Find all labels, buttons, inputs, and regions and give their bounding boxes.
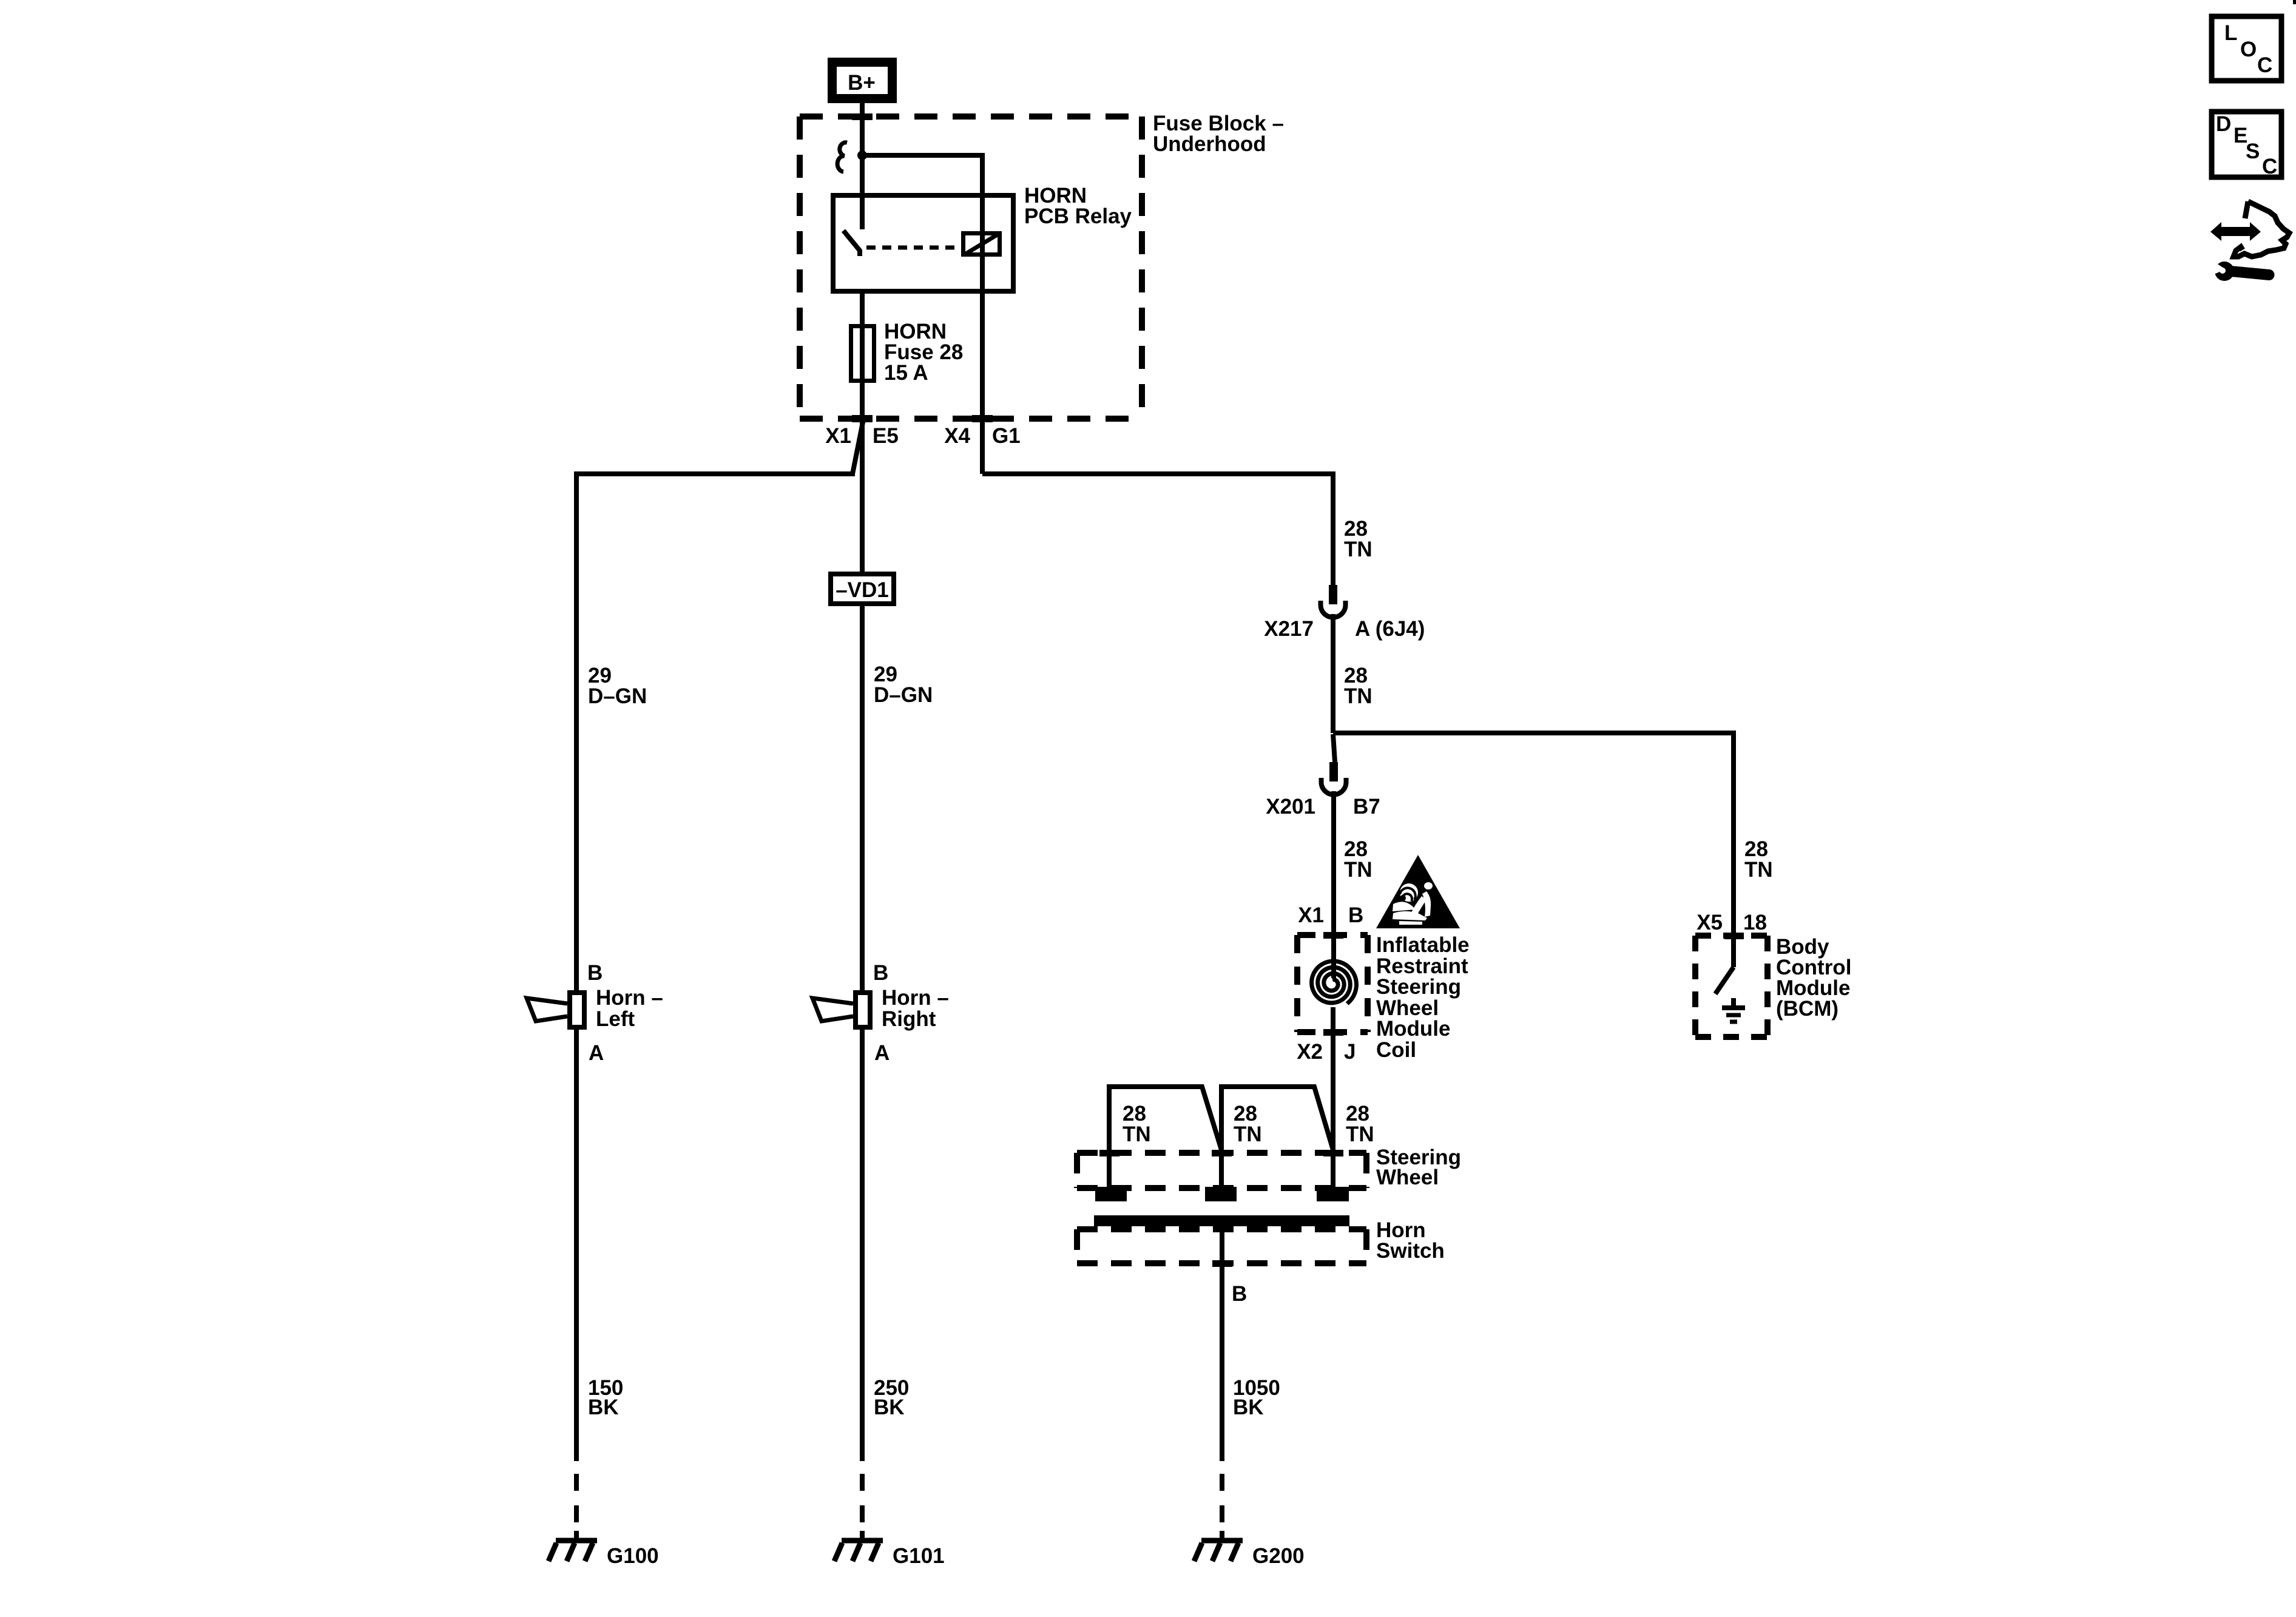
svg-text:B: B	[873, 961, 888, 985]
relay actuation dashed line	[866, 246, 960, 250]
dashed wire to G100	[574, 1474, 579, 1542]
wire X4/G1 across and down to X217	[982, 474, 1333, 585]
svg-text:Underhood: Underhood	[1153, 132, 1266, 156]
relay coil element box	[964, 234, 1000, 255]
svg-text:X201: X201	[1266, 795, 1315, 819]
label Fuse Block - Underhood	[1153, 112, 1284, 156]
svg-text:G100: G100	[607, 1544, 659, 1568]
tick at B+ wire crossing fuse block top border	[852, 113, 873, 120]
svg-text:J: J	[1344, 1040, 1356, 1064]
svg-text:Horn –: Horn –	[882, 986, 949, 1010]
svg-text:TN: TN	[1744, 858, 1773, 882]
steering wheel contact pad right	[1317, 1187, 1349, 1201]
label Horn Switch	[1376, 1218, 1445, 1263]
label Steering Wheel	[1376, 1146, 1461, 1189]
label 250 BK	[874, 1376, 909, 1419]
service information icon hand outline	[2234, 201, 2289, 257]
tick at BCM box top crossing	[1724, 933, 1744, 939]
svg-text:Left: Left	[596, 1007, 635, 1031]
svg-text:Module: Module	[1376, 1017, 1450, 1041]
svg-text:B7: B7	[1353, 795, 1380, 819]
svg-text:BK: BK	[874, 1396, 905, 1419]
horn left trumpet	[527, 998, 567, 1021]
tick at X1/E5 wire crossing fuse block bottom border	[852, 415, 873, 422]
svg-text:(BCM): (BCM)	[1776, 997, 1838, 1021]
horn right body	[856, 993, 870, 1027]
horn switch contact bar	[1094, 1215, 1349, 1226]
dashed wire to G101	[860, 1474, 865, 1542]
relay coil side wire down through relay to X4/G1	[980, 153, 985, 474]
wire junction to BCM	[1333, 733, 1734, 967]
svg-text:X2: X2	[1297, 1040, 1323, 1064]
svg-text:O: O	[2240, 38, 2257, 61]
svg-text:Switch: Switch	[1376, 1239, 1445, 1263]
connector X201 male terminal	[1329, 762, 1338, 781]
svg-text:D–GN: D–GN	[588, 684, 647, 708]
svg-text:Right: Right	[882, 1007, 936, 1031]
svg-text:15 A: 15 A	[884, 361, 928, 385]
relay switch arm	[843, 231, 860, 256]
svg-text:BK: BK	[588, 1396, 619, 1419]
wire relay switch side down through fuse	[860, 294, 865, 419]
label Inflatable Restraint Steering Wheel Module Coil	[1376, 933, 1470, 1062]
svg-text:TN: TN	[1344, 684, 1373, 708]
BCM internal switch arm	[1715, 967, 1734, 994]
svg-text:18: 18	[1743, 911, 1767, 934]
BCM dashed box	[1695, 936, 1768, 1037]
LOC reference box	[2212, 16, 2281, 81]
horn right trumpet	[812, 998, 853, 1021]
wire B+ down to relay switch contact	[860, 103, 865, 229]
svg-text:C: C	[2257, 53, 2272, 77]
ground G200	[1194, 1541, 1243, 1561]
bus curl symbol at junction	[837, 143, 847, 172]
connector X201 female cup	[1322, 778, 1346, 795]
svg-text:TN: TN	[1123, 1122, 1151, 1146]
wire VD1 down to horn right	[860, 606, 865, 990]
svg-text:D–GN: D–GN	[874, 683, 933, 707]
ground G101	[834, 1541, 883, 1561]
label HORN Fuse 28 15 A	[884, 320, 963, 385]
label Body Control Module (BCM)	[1776, 935, 1851, 1021]
svg-text:TN: TN	[1234, 1122, 1262, 1146]
wire horn switch down	[1220, 1226, 1224, 1461]
svg-text:G200: G200	[1252, 1544, 1305, 1568]
svg-text:B+: B+	[848, 71, 876, 95]
label 28 TN loop left	[1123, 1102, 1151, 1146]
label 1050 BK	[1233, 1376, 1280, 1419]
svg-text:B: B	[1348, 903, 1363, 927]
jog wire junction to X201	[1333, 734, 1335, 762]
label 28 TN circuit 3	[1344, 837, 1373, 882]
svg-text:B: B	[1232, 1282, 1247, 1306]
BCM internal ground symbol	[1722, 998, 1745, 1022]
svg-text:X217: X217	[1264, 617, 1314, 641]
svg-text:X4: X4	[944, 424, 970, 448]
wire junction to relay coil side	[862, 153, 982, 158]
connector X217 female cup	[1321, 601, 1346, 617]
wire X217 to X201 junction	[1331, 614, 1335, 733]
wire horizontal and down to horn left	[576, 474, 855, 990]
relay U1 HORN PCB Relay box	[833, 195, 1013, 291]
svg-text:–VD1: –VD1	[836, 578, 889, 602]
jog wire to left horn branch	[853, 419, 863, 474]
SIR warning triangle	[1376, 855, 1460, 928]
label 28 TN BCM circuit	[1744, 837, 1773, 882]
wire below coil spiral	[1331, 1007, 1335, 1190]
svg-text:TN: TN	[1344, 538, 1373, 561]
svg-text:X1: X1	[1298, 903, 1324, 927]
svg-text:G1: G1	[992, 424, 1021, 448]
label 29 D-GN left	[588, 664, 647, 708]
svg-text:Steering: Steering	[1376, 975, 1461, 999]
coil module dashed box	[1297, 935, 1368, 1032]
diode box -VD1	[831, 574, 894, 604]
DESC reference box	[2212, 112, 2281, 178]
svg-text:Horn –: Horn –	[596, 986, 663, 1010]
label 150 BK	[588, 1376, 623, 1419]
svg-text:G101: G101	[893, 1544, 945, 1568]
power symbol B+	[828, 58, 897, 103]
clockspring coil spiral	[1312, 961, 1357, 1004]
tick at coil box top crossing	[1323, 932, 1343, 939]
tick at horn switch box bottom crossing	[1212, 1260, 1232, 1267]
steering wheel loop wire middle	[1221, 1087, 1333, 1190]
svg-text:Coil: Coil	[1376, 1038, 1416, 1062]
svg-text:E5: E5	[873, 424, 899, 448]
svg-text:L: L	[2224, 21, 2237, 45]
ground G100	[549, 1541, 597, 1561]
tick at X4/G1 wire crossing fuse block bottom border	[972, 415, 993, 422]
junction dot	[857, 150, 867, 160]
svg-text:A (6J4): A (6J4)	[1355, 617, 1425, 641]
label Horn - Right	[882, 986, 949, 1031]
label 28 TN circuit 2	[1344, 664, 1373, 708]
label 28 TN loop right	[1346, 1102, 1374, 1146]
tick at coil box bottom crossing	[1323, 1029, 1343, 1036]
svg-text:B: B	[587, 961, 603, 985]
wire E5 down to VD1	[860, 419, 865, 572]
fuse F28 HORN	[851, 326, 874, 381]
service information icon wrench	[2208, 258, 2275, 281]
dashed wire to G200	[1220, 1474, 1224, 1542]
connector X217 male terminal	[1329, 585, 1337, 604]
wire X201 down to coil module	[1331, 791, 1336, 978]
steering wheel contact pad left	[1095, 1187, 1127, 1201]
fuse block underhood dashed box	[800, 116, 1142, 419]
steering wheel dashed box	[1077, 1153, 1366, 1188]
svg-text:A: A	[589, 1041, 604, 1065]
svg-text:S: S	[2246, 140, 2260, 163]
steering wheel loop wire left	[1109, 1087, 1221, 1190]
steering wheel contact pad middle	[1205, 1187, 1237, 1201]
relay coil diagonal	[966, 234, 998, 254]
horn left body	[570, 993, 584, 1027]
wire horn left down	[574, 1030, 579, 1461]
svg-text:Inflatable: Inflatable	[1376, 933, 1470, 957]
label HORN PCB Relay	[1024, 184, 1132, 228]
svg-text:PCB Relay: PCB Relay	[1024, 204, 1132, 228]
svg-text:C: C	[2262, 155, 2277, 178]
page corner mark	[2293, 0, 2296, 4]
label 28 TN circuit 1	[1344, 517, 1373, 561]
label 29 D-GN right	[874, 663, 933, 707]
svg-text:X5: X5	[1697, 911, 1723, 934]
svg-text:TN: TN	[1344, 858, 1373, 882]
ticks at steering wheel box wire crossings	[1099, 1150, 1119, 1156]
service information icon double arrow	[2210, 222, 2261, 241]
svg-text:BK: BK	[1233, 1396, 1264, 1419]
svg-text:A: A	[874, 1041, 890, 1065]
svg-text:X1: X1	[825, 424, 851, 448]
svg-text:D: D	[2216, 112, 2231, 136]
label 28 TN loop middle	[1234, 1102, 1262, 1146]
horn switch dashed box	[1077, 1229, 1366, 1263]
label Horn - Left	[596, 986, 663, 1031]
svg-text:Wheel: Wheel	[1376, 1166, 1439, 1189]
wire horn right down	[860, 1030, 865, 1461]
svg-text:TN: TN	[1346, 1122, 1374, 1146]
